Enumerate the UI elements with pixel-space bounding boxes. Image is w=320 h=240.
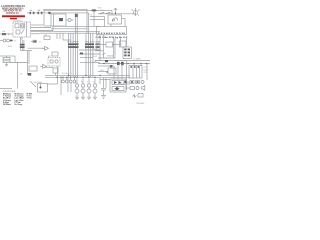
wire harness riser pair 2: [87, 9, 92, 33]
connector block small x96: [96, 43, 100, 48]
red underline bar 2: [10, 18, 17, 19]
wire legend top line: [0, 88, 12, 90]
svg-text:T Tan: T Tan: [27, 98, 33, 100]
wire y44 link: [113, 44, 120, 46]
svg-text:W/G: W/G: [93, 48, 97, 50]
svg-text:W White: W White: [3, 103, 12, 106]
fuse F2: [34, 9, 45, 14]
wire vertical x17.5: [17, 63, 19, 89]
svg-text:BYGRW: BYGRW: [68, 42, 79, 44]
ground symbol right: [101, 96, 106, 99]
wire ignition drop: [111, 10, 113, 15]
right verticals from cluster: [97, 35, 127, 61]
svg-text:GBuYR: GBuYR: [85, 42, 95, 44]
legend text column 1: [3, 94, 12, 107]
wire ignition to cluster: [110, 24, 112, 27]
svg-text:NEUTRAL: NEUTRAL: [34, 81, 42, 84]
sensor box bottom left: [34, 81, 48, 92]
switch small mid right: [102, 52, 114, 58]
dark component x110: [110, 65, 112, 67]
op-amp triangle U1: [41, 46, 49, 50]
connector blocks bundle2: [85, 43, 94, 48]
right margin text: [144, 67, 149, 74]
wire horizontal y62.5: [10, 62, 28, 64]
battery symbol: [3, 56, 10, 67]
dimmer switch S1: [100, 10, 111, 14]
starter button circles: [0, 39, 17, 42]
wires into diode block: [100, 64, 122, 89]
right bus 3: [98, 65, 112, 67]
svg-text:Bl G Bu Y R: Bl G Bu Y R: [62, 73, 72, 75]
cluster pin label row 2: [96, 36, 129, 39]
connector circle row: [62, 77, 76, 83]
wire lower-left bus: [0, 55, 15, 57]
wire stub feeds big box: [98, 64, 141, 72]
wire y50.5: [21, 50, 33, 52]
svg-text:Gr Gray: Gr Gray: [15, 104, 23, 106]
horn symbol: [132, 8, 140, 16]
big box right: [129, 66, 142, 79]
rectifier box: [29, 66, 37, 71]
bundle wire labels: [68, 42, 101, 44]
wire mid feed 1: [31, 31, 101, 33]
wire mid feed 0: [53, 25, 100, 27]
instrument cluster box: [97, 27, 127, 35]
wire vertical x27.5: [27, 51, 29, 76]
junction dots bus: [56, 75, 100, 78]
svg-text:W: W: [39, 41, 41, 43]
fuse F1: [27, 9, 34, 14]
ignition coil 4: [93, 79, 97, 100]
resistor R1: [31, 40, 41, 43]
dark component pair right: [105, 60, 124, 65]
svg-text:Bu/R: Bu/R: [93, 56, 98, 58]
coil box: [44, 67, 58, 75]
wire fuse riser: [43, 9, 45, 13]
wire blob drop: [93, 12, 95, 27]
harness drop bundle left: [20, 37, 25, 51]
svg-text:TRX350D: TRX350D: [136, 103, 145, 105]
wire top bus A2: [44, 9, 112, 11]
wire top bus A: [44, 8, 87, 10]
ignition coil 1: [75, 79, 79, 100]
sensor box: [52, 52, 58, 56]
junction dot top: [48, 12, 50, 14]
connector blocks bundle1: [68, 43, 79, 48]
svg-text:G/Bl: G/Bl: [93, 61, 97, 63]
dashed unit box: [48, 55, 60, 66]
wire y50.8: [95, 49, 103, 51]
capacitor C1: [101, 89, 106, 96]
wire links between bundles: [79, 48, 100, 62]
small boxes right rows: [125, 81, 145, 98]
fusible link: [0, 30, 13, 35]
wire right feeds: [90, 17, 105, 27]
wire bottom center verticals: [48, 66, 72, 95]
diagonal wire: [30, 81, 36, 87]
wire vertical x29: [28, 51, 30, 65]
svg-text:FOURTRAX 4X4: FOURTRAX 4X4: [6, 12, 19, 15]
svg-text:BRAKE: BRAKE: [107, 55, 114, 58]
wire vertical x15: [14, 56, 16, 63]
wire mid bus 1: [45, 74, 130, 76]
small module box right-mid: [100, 68, 116, 74]
wire mid feed 2: [40, 32, 100, 34]
diode triangle D2: [40, 64, 47, 68]
cluster pin labels: [98, 32, 126, 35]
right bus 0: [98, 57, 115, 59]
svg-text:HI LO: HI LO: [100, 10, 105, 12]
red underline bar: [2, 15, 25, 17]
connector dark x28: [20, 73, 31, 76]
svg-text:Bl/W: Bl/W: [8, 46, 12, 48]
wire y44: [95, 44, 106, 46]
junction dots right bus: [103, 63, 147, 64]
wire vertical x147 low: [146, 64, 148, 81]
legend text column 2: [15, 94, 26, 107]
connector pin block: [123, 47, 132, 59]
wire top bus B: [44, 12, 89, 14]
right bus 1: [95, 60, 150, 62]
ignition coil 2: [81, 79, 85, 100]
regulator box: [44, 14, 74, 31]
ignition coil 3: [87, 79, 91, 100]
right bus 2: [98, 63, 150, 65]
wire vertical x126.5 low: [126, 61, 128, 91]
connector blob J1: [91, 8, 101, 12]
wire y84 right: [120, 83, 130, 85]
harness bundle 2: [86, 33, 93, 77]
legend text column 3: [27, 94, 33, 100]
svg-text:1 2 3 4 5 6 7 8 9 10: 1 2 3 4 5 6 7 8 9 10: [98, 32, 126, 35]
key symbol: [114, 8, 117, 15]
svg-text:COLOR CODE: COLOR CODE: [3, 91, 16, 93]
wire mid feed 3: [51, 28, 87, 30]
diode block box: [110, 79, 126, 92]
wire mid bus 2: [45, 76, 130, 78]
harness bundle 1: [69, 33, 78, 77]
svg-text:CDI: CDI: [44, 35, 48, 37]
CDI small box: [44, 35, 50, 40]
wire harness riser pair 1: [75, 13, 78, 33]
ignition switch box: [108, 15, 125, 27]
relay box dashed: [13, 14, 53, 40]
wire switch link: [98, 13, 136, 15]
small box mid right: [106, 41, 126, 47]
wire horizontal y48: [28, 47, 46, 49]
svg-text:TO MAIN: TO MAIN: [133, 58, 141, 61]
middle riser group: [57, 33, 71, 40]
svg-text:G Bl Y Bu R W Lg Br O P: G Bl Y Bu R W Lg Br O P: [96, 36, 129, 39]
